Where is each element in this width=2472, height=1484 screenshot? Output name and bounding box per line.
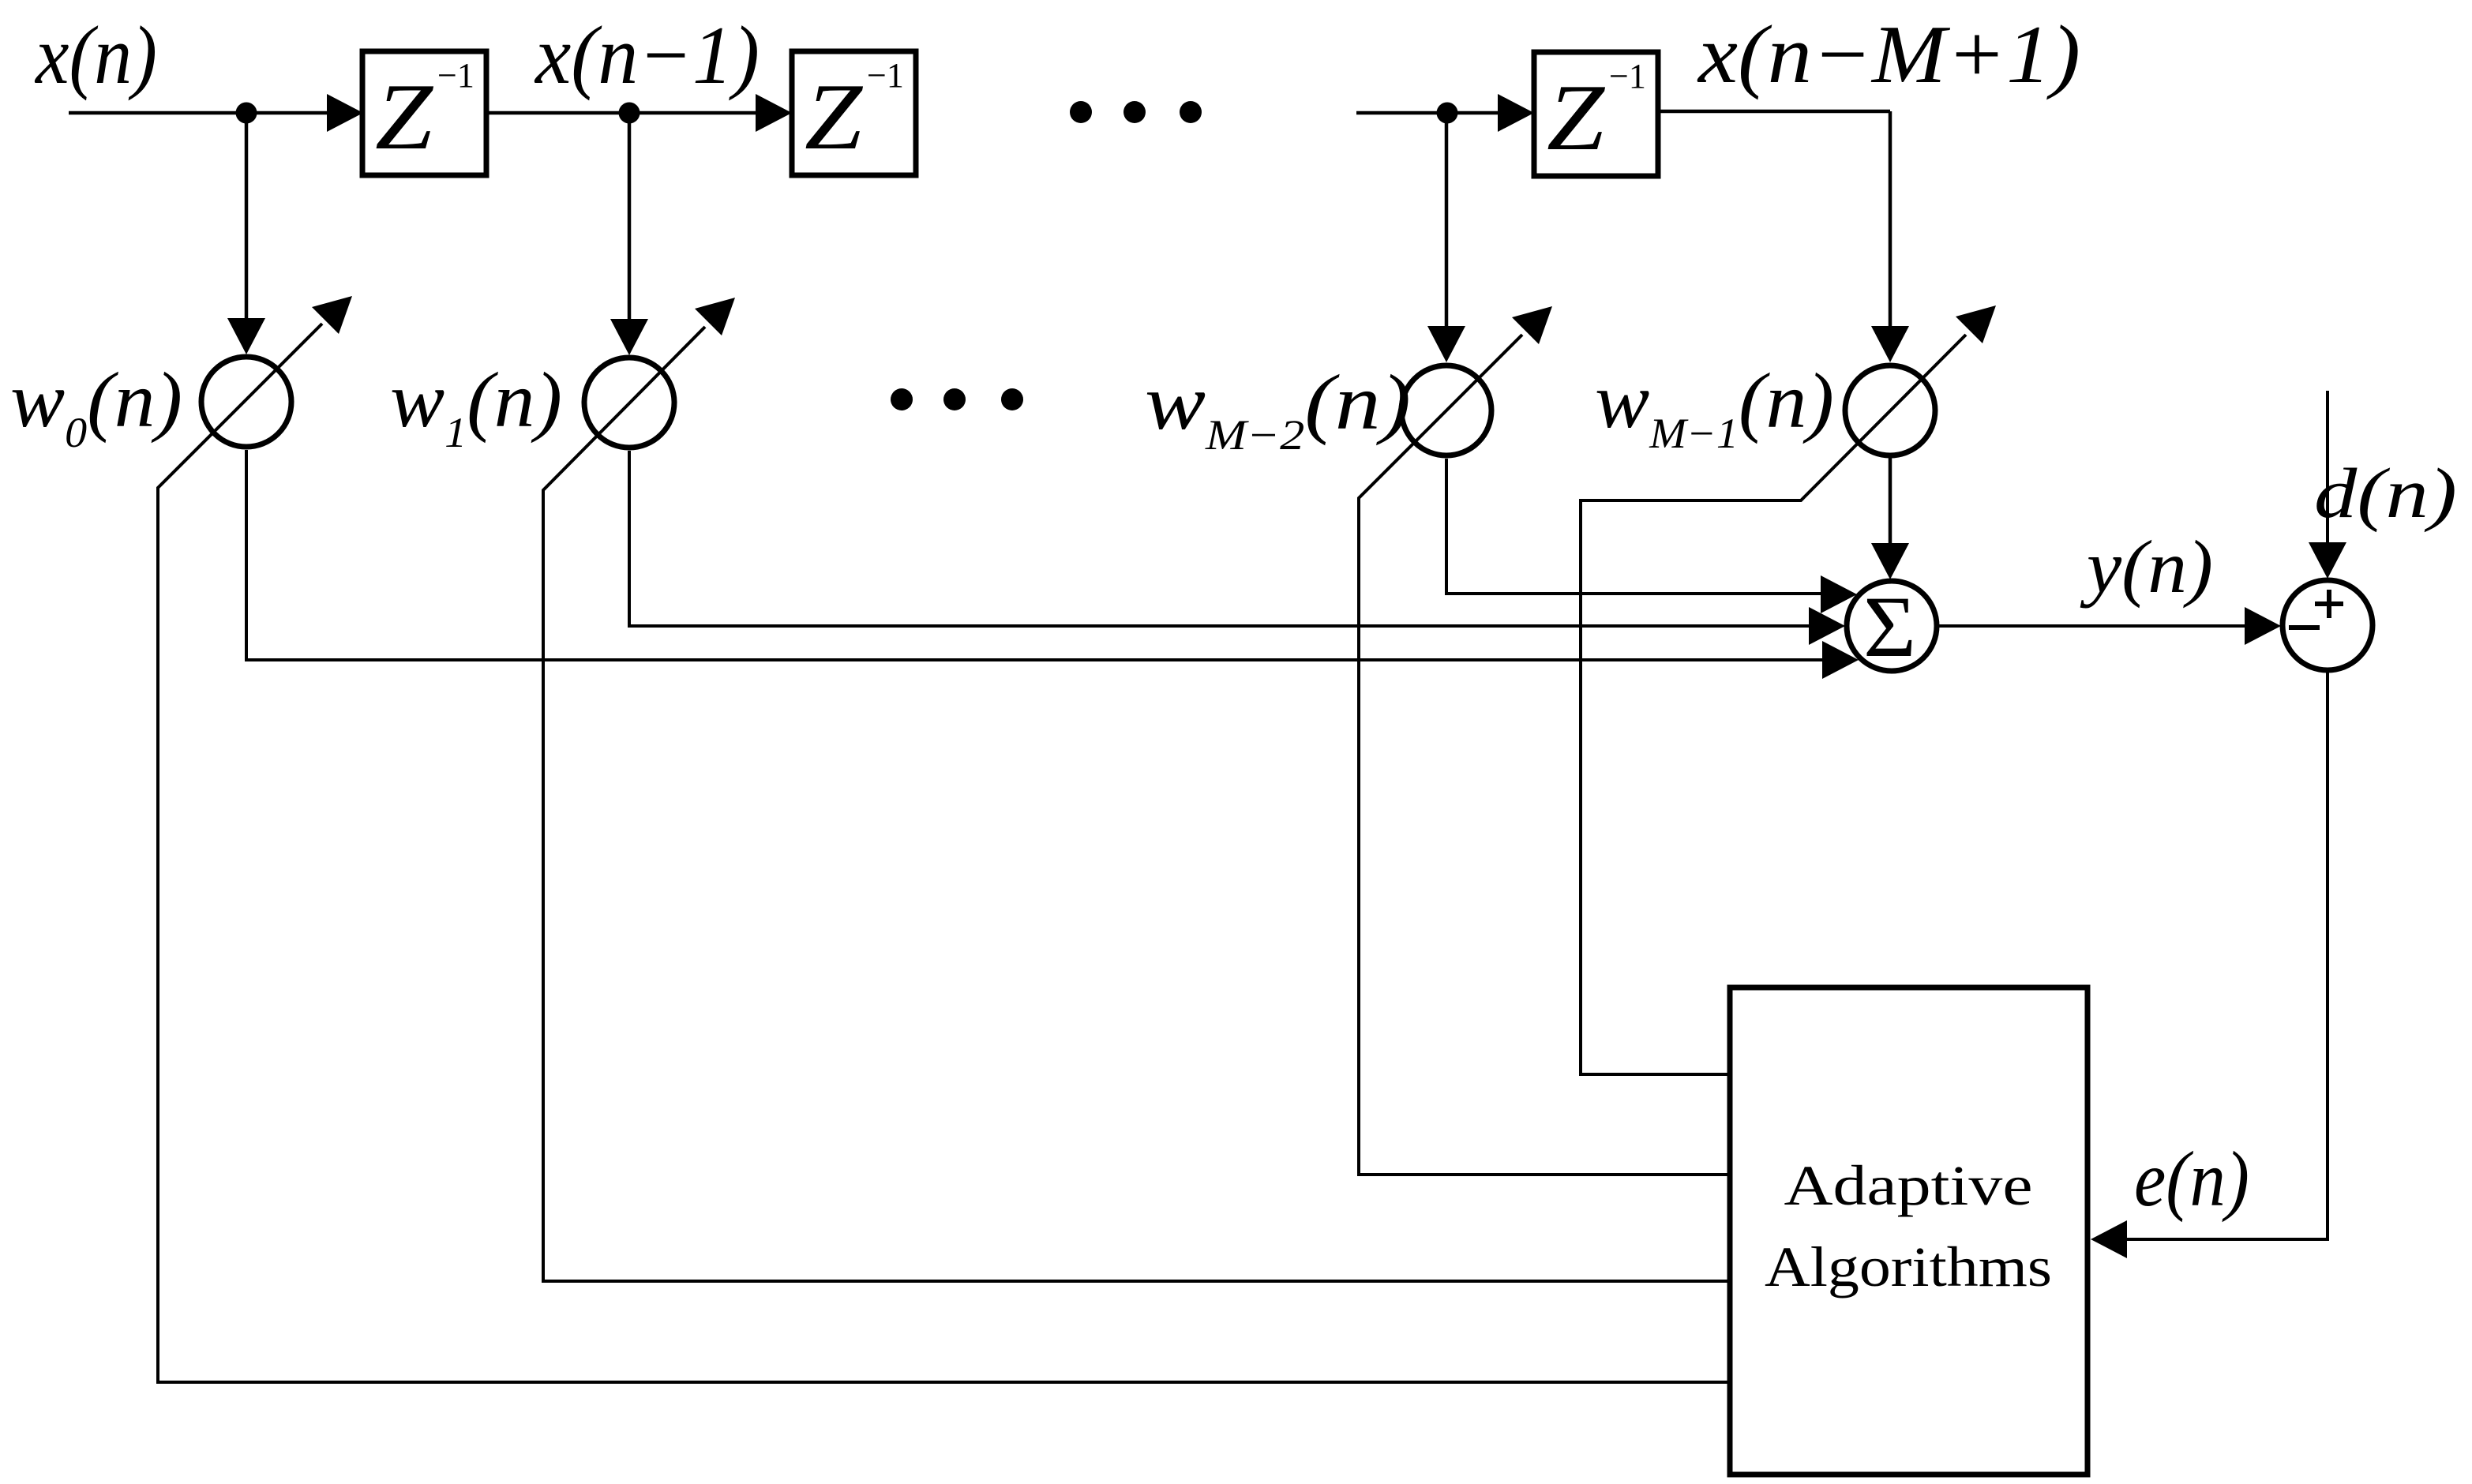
svg-text:Z: Z: [805, 64, 863, 169]
svg-text:e(n): e(n): [2134, 1135, 2249, 1223]
svg-text:−1: −1: [867, 56, 904, 95]
svg-text:x(n−1): x(n−1): [534, 9, 760, 101]
svg-text:Algorithms: Algorithms: [1765, 1235, 2052, 1298]
svg-text:Z: Z: [1547, 65, 1605, 170]
svg-text:w0(n): w0(n): [10, 356, 182, 456]
svg-text:Adaptive: Adaptive: [1784, 1154, 2033, 1217]
svg-text:x(n): x(n): [34, 9, 157, 101]
svg-text:w1(n): w1(n): [390, 356, 562, 456]
svg-text:Σ: Σ: [1863, 579, 1916, 675]
svg-text:d(n): d(n): [2314, 455, 2457, 533]
svg-text:x(n−M+1): x(n−M+1): [1697, 8, 2080, 100]
svg-text:y(n): y(n): [2080, 525, 2213, 609]
svg-text:Z: Z: [375, 64, 433, 169]
svg-text:−1: −1: [1609, 57, 1646, 96]
svg-text:−1: −1: [437, 56, 475, 95]
